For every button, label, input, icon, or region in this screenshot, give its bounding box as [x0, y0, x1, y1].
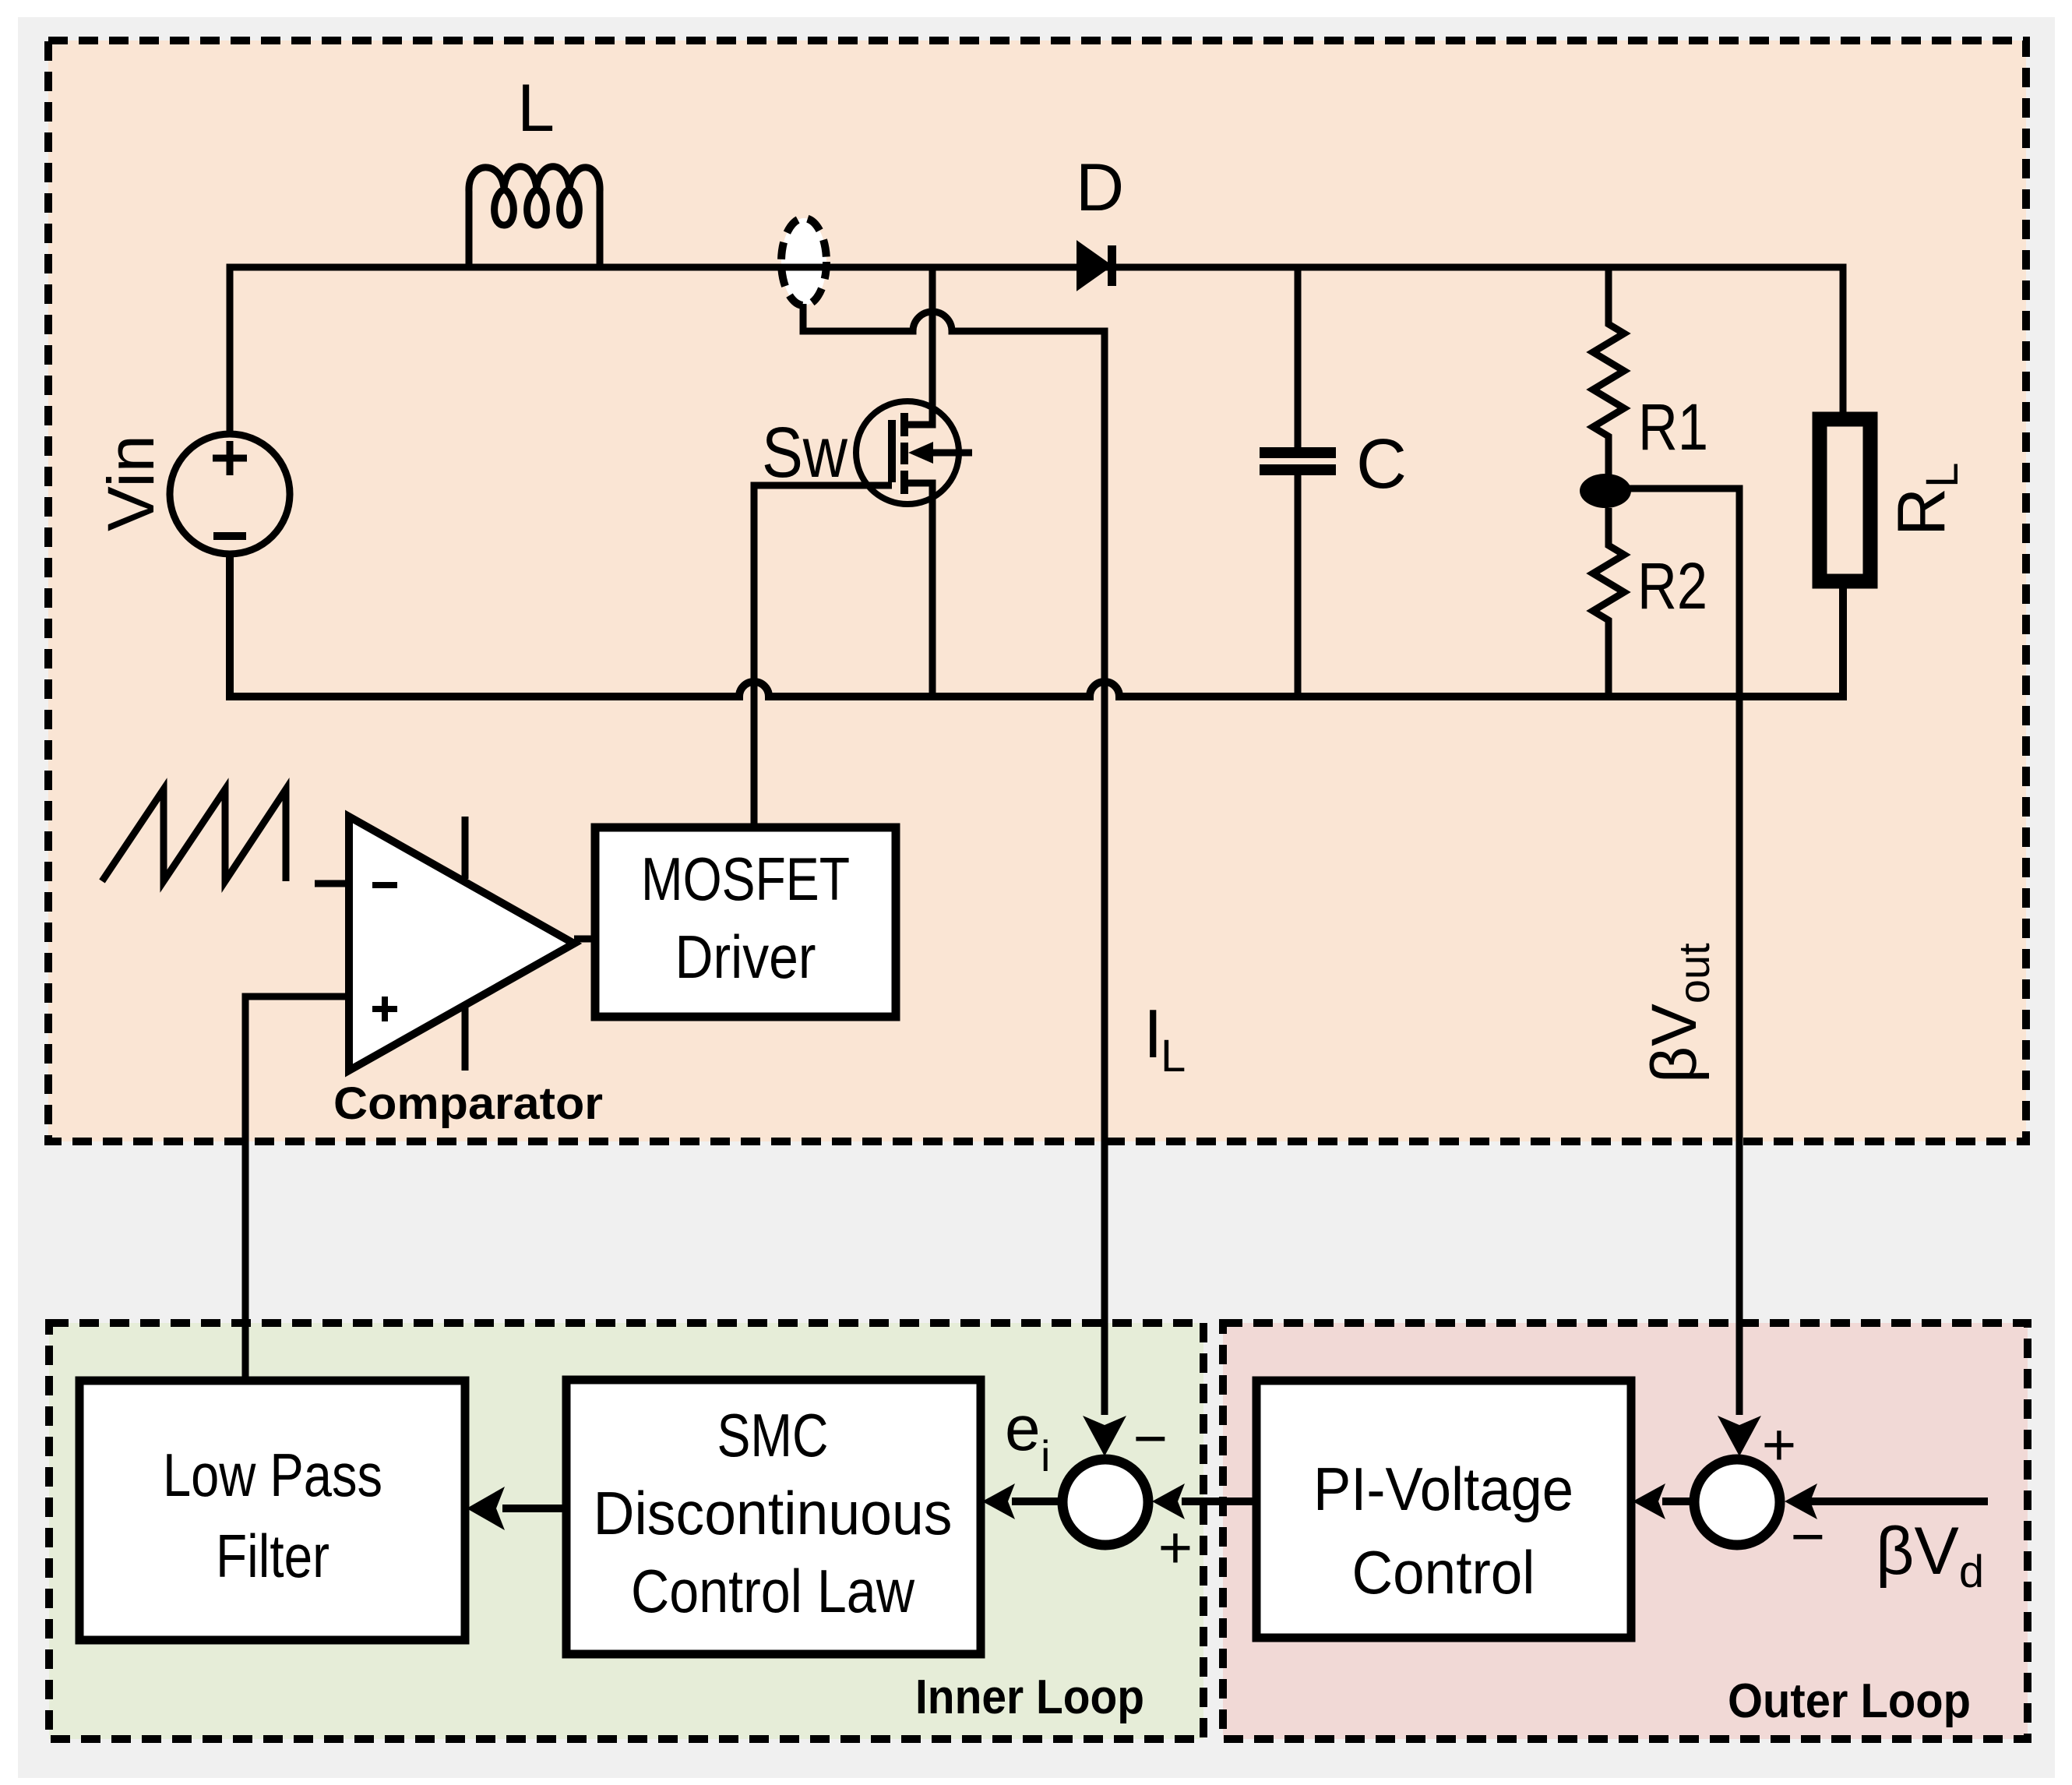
- svg-text:Sw: Sw: [762, 413, 847, 492]
- current sensor ellipse: [781, 218, 826, 305]
- svg-text:e: e: [1005, 1393, 1041, 1464]
- wire: inner circle to SMC arrow: [1012, 1497, 1058, 1505]
- wire: bottom rail with hops: [230, 557, 1843, 697]
- svg-text:L: L: [1161, 1031, 1186, 1081]
- wire: comparator output: [574, 936, 595, 943]
- svg-text:I: I: [1143, 995, 1162, 1072]
- wire: comparator + input: [245, 997, 345, 1381]
- inner loop dashed box: [49, 1323, 1203, 1739]
- svg-text:Outer Loop: Outer Loop: [1728, 1674, 1971, 1728]
- summing node ei (inner): [1062, 1459, 1148, 1545]
- block SMC Discontinuous Control Law: [566, 1380, 981, 1654]
- wire: outer circle to PI arrow: [1662, 1497, 1690, 1505]
- wire: beta-Vd input arrow: [1809, 1497, 1988, 1505]
- svg-text:Vin: Vin: [94, 435, 167, 531]
- svg-text:L: L: [517, 71, 555, 146]
- power stage dashed box: [48, 41, 2026, 1141]
- node: R1-R2 junction dot: [1580, 474, 1631, 508]
- svg-text:+: +: [1158, 1515, 1193, 1581]
- wire: PI to inner circle arrow: [1182, 1497, 1256, 1505]
- sawtooth waveform: [102, 789, 286, 881]
- wire: top rail from Vin to RL: [230, 267, 1843, 431]
- wire: gate lead: [754, 485, 892, 827]
- svg-text:+: +: [1762, 1412, 1796, 1478]
- svg-text:Inner Loop: Inner Loop: [915, 1670, 1144, 1724]
- svg-text:PI-Voltage: PI-Voltage: [1313, 1455, 1573, 1523]
- resistor R1: [1593, 267, 1624, 478]
- wire: SMC to LPF arrow: [502, 1505, 566, 1512]
- svg-text:−: −: [1133, 1406, 1168, 1472]
- svg-text:D: D: [1076, 150, 1124, 225]
- svg-text:Control: Control: [1352, 1538, 1535, 1607]
- summing node (outer): [1694, 1459, 1780, 1545]
- wire: sensed current with hop over drain: [803, 304, 1105, 1415]
- transistor Sw (MOSFET): [904, 267, 932, 425]
- svg-text:R1: R1: [1638, 390, 1708, 464]
- arrowhead IL into inner summing circle: [1083, 1416, 1126, 1456]
- block Low Pass Filter: [79, 1381, 465, 1640]
- capacitor C: [1295, 267, 1302, 697]
- svg-text:Filter: Filter: [216, 1522, 329, 1590]
- svg-text:Driver: Driver: [675, 922, 816, 991]
- svg-text:Comparator: Comparator: [333, 1078, 603, 1129]
- svg-text:MOSFET: MOSFET: [641, 845, 850, 913]
- svg-text:Discontinuous: Discontinuous: [594, 1479, 953, 1547]
- outer loop dashed box: [1223, 1323, 2028, 1739]
- block MOSFET Driver: [595, 827, 896, 1017]
- resistor R2: [1593, 508, 1624, 697]
- svg-text:Control Law: Control Law: [631, 1557, 915, 1625]
- diode D: [1078, 243, 1110, 288]
- svg-text:Low Pass: Low Pass: [163, 1441, 382, 1509]
- svg-text:R2: R2: [1637, 549, 1707, 623]
- resistor RL: [1820, 419, 1870, 581]
- svg-text:SMC: SMC: [717, 1401, 829, 1469]
- source Vin: [170, 434, 290, 554]
- inductor L: [469, 167, 600, 267]
- wire: beta-Vout tap: [1626, 489, 1739, 1415]
- block PI-Voltage Control: [1256, 1381, 1631, 1638]
- comparator op-amp U1: [315, 880, 346, 887]
- svg-text:C: C: [1356, 425, 1407, 503]
- svg-text:i: i: [1041, 1431, 1050, 1480]
- arrowhead into outer summing circle: [1718, 1416, 1761, 1456]
